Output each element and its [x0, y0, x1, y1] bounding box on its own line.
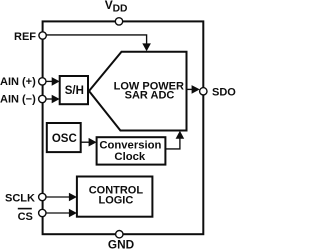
svg-text:AIN (−): AIN (−) — [0, 93, 36, 105]
svg-text:Clock: Clock — [114, 151, 145, 163]
svg-text:LOGIC: LOGIC — [98, 194, 133, 206]
svg-text:OSC: OSC — [52, 133, 77, 145]
wire AIN- to S/H — [46, 95, 60, 104]
block OSC — [47, 123, 81, 152]
svg-text:AIN (+): AIN (+) — [0, 76, 36, 88]
block LOW POWER SAR ADC — [89, 52, 187, 131]
pin AIN (-) — [0, 93, 46, 105]
chip outline — [43, 21, 204, 234]
wire OSC to Conversion Clock — [81, 138, 97, 147]
pin CS (active low) — [18, 209, 46, 223]
pin AIN (+) — [0, 76, 46, 88]
wire SCLK to CONTROL LOGIC — [46, 193, 77, 202]
svg-text:SAR ADC: SAR ADC — [125, 90, 175, 102]
svg-text:S/H: S/H — [65, 85, 84, 97]
pin SDO — [200, 87, 237, 99]
pin VDD — [105, 0, 128, 25]
wire REF to SAR ADC — [46, 35, 151, 51]
svg-text:Conversion: Conversion — [99, 139, 161, 151]
block CONTROL LOGIC — [77, 177, 152, 217]
pin REF — [14, 31, 46, 43]
svg-text:REF: REF — [14, 31, 36, 43]
svg-text:SCLK: SCLK — [5, 193, 35, 205]
wire SAR ADC to SDO — [186, 85, 200, 94]
pin SCLK — [5, 193, 46, 205]
svg-text:SDO: SDO — [212, 87, 236, 99]
svg-text:GND: GND — [108, 238, 135, 250]
block Conversion Clock — [97, 137, 166, 164]
svg-text:CS: CS — [18, 211, 33, 223]
wire Conversion Clock to SAR ADC — [165, 131, 184, 149]
pin GND — [108, 231, 135, 250]
svg-text:DD: DD — [113, 4, 128, 15]
wire CS to CONTROL LOGIC — [46, 209, 77, 218]
wire AIN+ to S/H — [46, 77, 60, 86]
block S/H — [60, 76, 88, 104]
